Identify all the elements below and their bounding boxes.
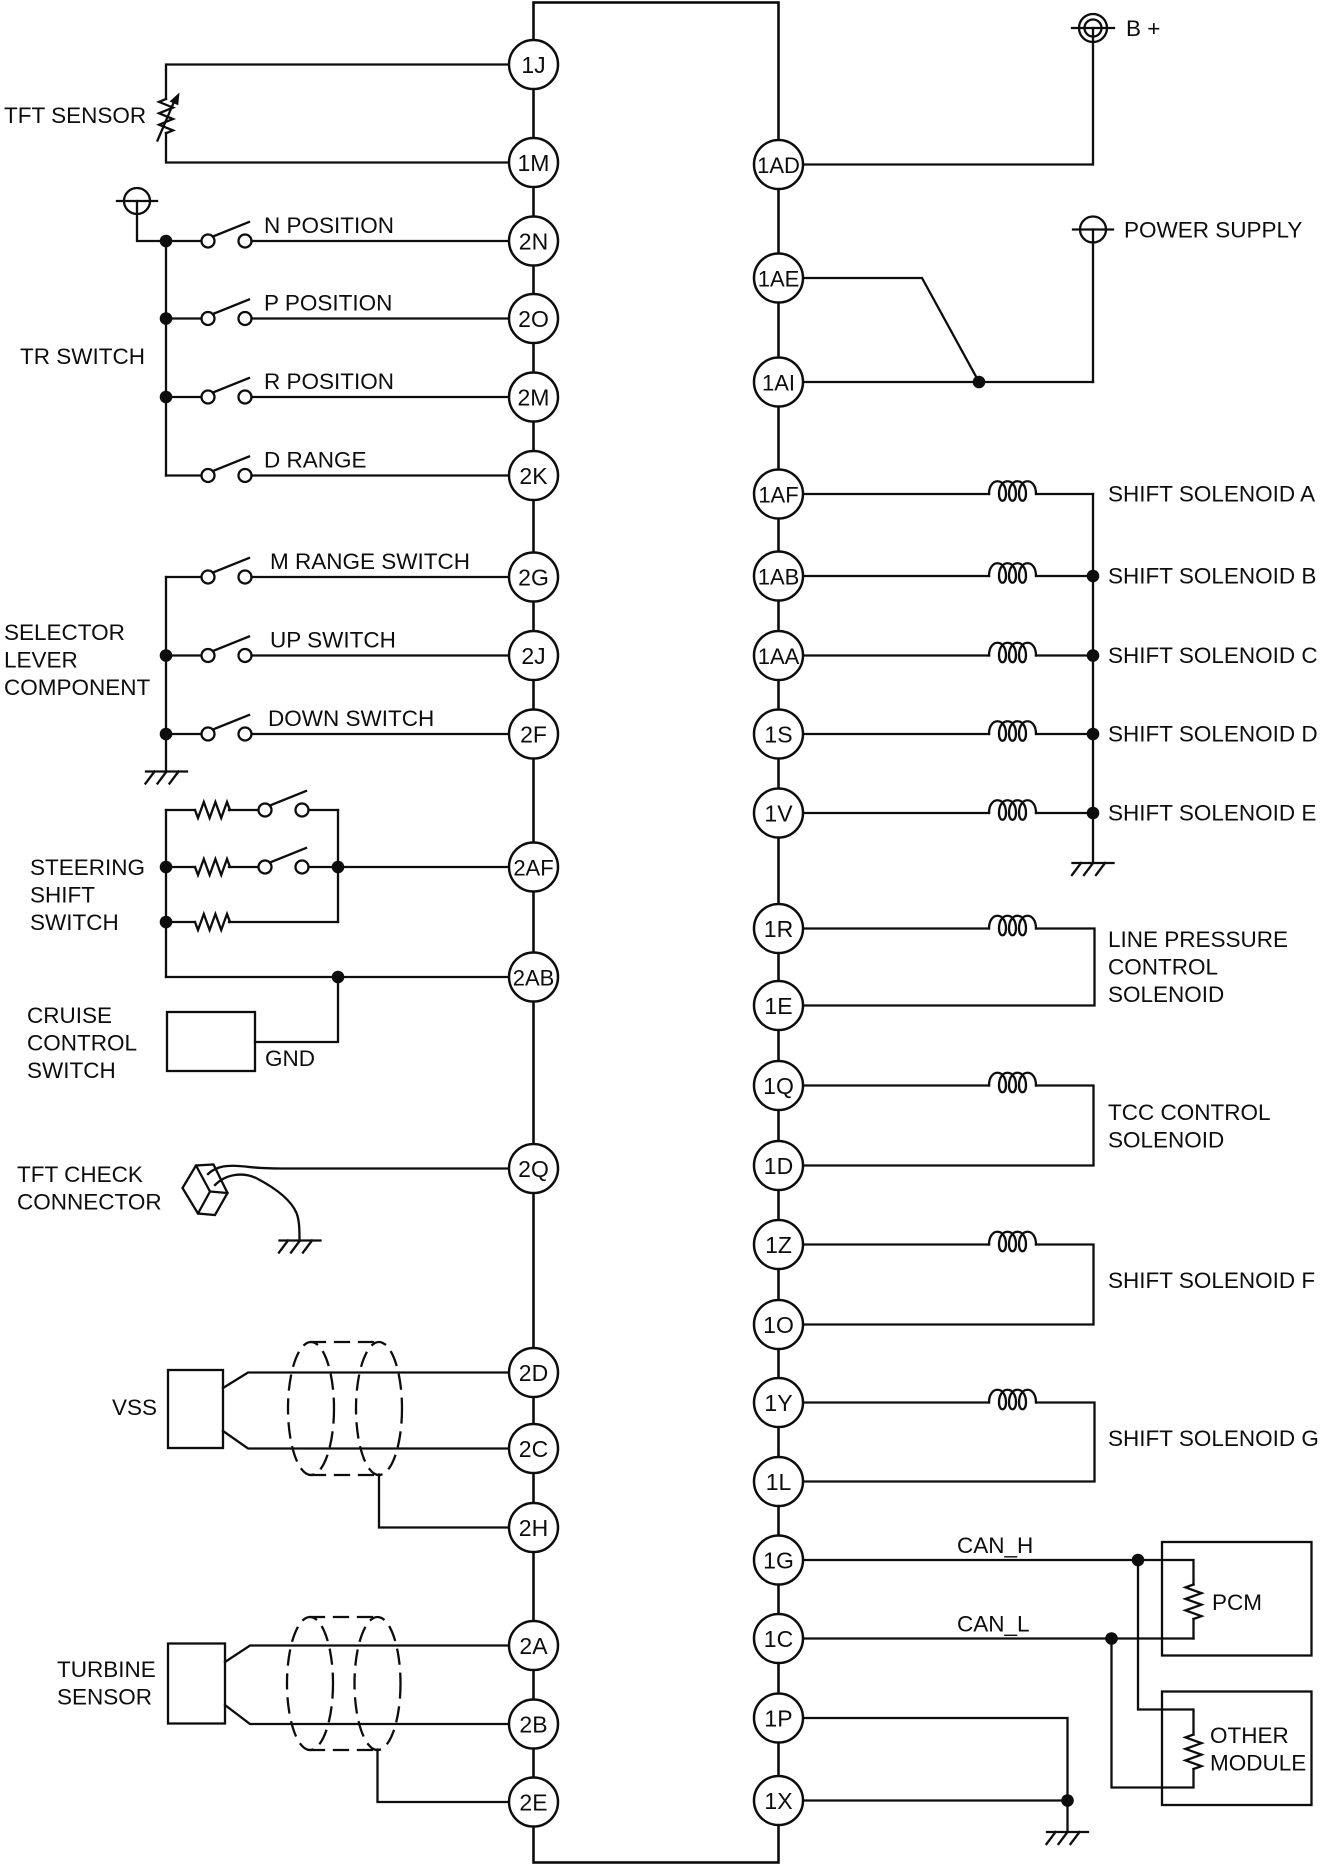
pin 1AE <box>754 254 803 303</box>
wire to R2 <box>166 866 195 868</box>
turbine shield top dashed <box>310 1616 378 1618</box>
solenoid E coil <box>989 800 1036 820</box>
wire VSS shield to pin 2H <box>379 1475 509 1528</box>
power supply symbol <box>1073 217 1113 243</box>
svg-text:MODULE: MODULE <box>1210 1751 1306 1776</box>
wire pin to solenoid E coil <box>803 812 989 814</box>
svg-text:1L: 1L <box>766 1469 792 1495</box>
wire 1C CAN_L <box>803 1637 1194 1639</box>
wire TFT check to ground <box>215 1175 300 1240</box>
turbine shield ellipse right <box>355 1617 401 1750</box>
pin 1V <box>754 789 803 838</box>
junction 1P/1X <box>1061 1794 1074 1807</box>
TCC solenoid coil <box>989 1073 1036 1093</box>
svg-text:2Q: 2Q <box>518 1156 549 1182</box>
VSS box <box>168 1370 223 1448</box>
svg-text:2AB: 2AB <box>513 965 555 990</box>
PCM box <box>1162 1542 1312 1656</box>
pin 1P <box>754 1694 803 1743</box>
svg-text:1Q: 1Q <box>763 1073 794 1099</box>
solenoid D coil <box>989 721 1036 741</box>
TR switch common bus <box>165 241 167 476</box>
wire bus to N switch <box>166 240 202 242</box>
junction steering left R3 <box>160 916 173 929</box>
svg-text:1M: 1M <box>518 150 550 176</box>
svg-text:TFT CHECK: TFT CHECK <box>17 1162 143 1187</box>
SSF coil <box>989 1232 1036 1252</box>
wire R3 to right bus <box>229 921 338 923</box>
other module terminating resistor <box>1186 1735 1202 1770</box>
wire 1AI to power supply <box>803 381 1093 383</box>
wire bus to R switch <box>166 396 202 398</box>
wire pin to solenoid A coil <box>803 493 989 495</box>
wire bus to DOWN switch <box>166 733 202 735</box>
resistor R2 <box>195 859 230 875</box>
svg-text:COMPONENT: COMPONENT <box>4 675 151 700</box>
wire solenoid A to bus <box>1036 493 1093 495</box>
wire pin to solenoid B coil <box>803 575 989 577</box>
pin 1G <box>754 1536 803 1585</box>
svg-text:1V: 1V <box>764 800 793 826</box>
pin 1AD <box>754 140 803 189</box>
junction bus solenoid B <box>1087 570 1100 583</box>
svg-text:VSS: VSS <box>112 1395 157 1420</box>
wire 1R to LPC coil <box>803 927 989 929</box>
svg-text:2G: 2G <box>518 564 549 590</box>
wire DOWN switch to pin <box>252 733 510 735</box>
wire cruise to 2AB junction <box>255 977 338 1042</box>
svg-text:1AE: 1AE <box>758 266 800 291</box>
svg-text:DOWN SWITCH: DOWN SWITCH <box>268 706 434 731</box>
svg-text:TURBINE: TURBINE <box>57 1657 156 1682</box>
wire LPC loop to 1E <box>803 929 1095 1006</box>
svg-text:M RANGE SWITCH: M RANGE SWITCH <box>270 549 470 574</box>
svg-text:SELECTOR: SELECTOR <box>4 620 125 645</box>
pin 2D <box>509 1348 558 1397</box>
switch steering 2 <box>259 848 309 874</box>
ground 1X <box>1047 1832 1089 1844</box>
wire TFT sensor bottom to 1M <box>166 133 509 163</box>
svg-text:SHIFT: SHIFT <box>30 883 95 908</box>
switch UP SWITCH <box>202 637 252 663</box>
wire N switch to pin <box>252 240 510 242</box>
svg-text:SHIFT SOLENOID E: SHIFT SOLENOID E <box>1108 801 1316 826</box>
PCM terminating resistor <box>1186 1585 1202 1620</box>
wire other module resistor to CAN_L branch <box>1112 1639 1194 1788</box>
svg-text:1D: 1D <box>764 1153 793 1179</box>
turbine shield ellipse left <box>287 1617 333 1750</box>
pin 1AI <box>754 358 803 407</box>
svg-text:1X: 1X <box>764 1788 792 1814</box>
wire power supply down to 1AI line <box>1092 230 1094 383</box>
pin 2A <box>509 1621 558 1670</box>
turbine top lead <box>225 1646 509 1663</box>
wire R switch to pin <box>252 396 510 398</box>
svg-text:R POSITION: R POSITION <box>264 369 394 394</box>
VSS bottom lead <box>223 1431 509 1449</box>
pin 2E <box>509 1778 558 1827</box>
pin 2B <box>509 1700 558 1749</box>
svg-text:1S: 1S <box>764 721 792 747</box>
svg-text:P POSITION: P POSITION <box>264 291 392 316</box>
junction 2AB / cruise <box>332 971 345 984</box>
svg-text:SHIFT SOLENOID B: SHIFT SOLENOID B <box>1108 564 1316 589</box>
pin 2N <box>509 217 558 266</box>
pin 1D <box>754 1141 803 1190</box>
pin 2AB <box>509 953 558 1002</box>
wire 1Z to SSF coil <box>803 1243 989 1245</box>
junction bus solenoid D <box>1087 728 1100 741</box>
VSS top lead <box>223 1373 509 1389</box>
SSG coil <box>989 1390 1036 1410</box>
pin 2M <box>509 373 558 422</box>
pin 1AA <box>754 631 803 680</box>
switch D RANGE <box>202 457 252 483</box>
svg-text:1O: 1O <box>763 1312 794 1338</box>
svg-text:SENSOR: SENSOR <box>57 1685 152 1710</box>
pin 1Q <box>754 1061 803 1110</box>
svg-text:2E: 2E <box>519 1789 547 1815</box>
svg-text:2C: 2C <box>519 1436 548 1462</box>
pin 1M <box>509 138 558 187</box>
solenoid ground bus <box>1092 494 1094 863</box>
svg-text:2B: 2B <box>519 1711 547 1737</box>
junction 1AE/1AI <box>973 376 986 389</box>
pin 1S <box>754 710 803 759</box>
junction steering left R2 <box>160 861 173 874</box>
junction bus solenoid C <box>1087 649 1100 662</box>
wire switch1 to right bus <box>309 809 339 811</box>
other module box <box>1162 1692 1312 1806</box>
svg-text:SHIFT SOLENOID F: SHIFT SOLENOID F <box>1108 1268 1315 1293</box>
svg-text:CAN_H: CAN_H <box>957 1533 1033 1558</box>
wire pin to solenoid D coil <box>803 733 989 735</box>
svg-text:B +: B + <box>1126 16 1160 41</box>
svg-text:2H: 2H <box>519 1515 548 1541</box>
wire solenoid C to bus <box>1036 654 1093 656</box>
junction steering right 2AF <box>332 861 345 874</box>
svg-text:SHIFT SOLENOID D: SHIFT SOLENOID D <box>1108 722 1318 747</box>
wire SSG loop to 1L <box>803 1403 1095 1482</box>
wire solenoid B to bus <box>1036 575 1093 577</box>
steering left bus <box>165 810 167 977</box>
svg-text:SWITCH: SWITCH <box>30 910 119 935</box>
svg-text:N POSITION: N POSITION <box>264 213 394 238</box>
wire solenoid E to bus <box>1036 812 1093 814</box>
wire turbine shield to pin 2E <box>378 1750 510 1803</box>
junction CAN_L <box>1105 1632 1118 1645</box>
VSS shield bottom dashed <box>311 1474 379 1476</box>
svg-text:1R: 1R <box>764 916 793 942</box>
wire switch2 to pin 2AF <box>309 866 510 868</box>
solenoid A coil <box>989 481 1036 501</box>
svg-text:2N: 2N <box>519 228 548 254</box>
svg-text:2J: 2J <box>521 643 545 669</box>
svg-text:1G: 1G <box>763 1547 794 1573</box>
svg-text:1C: 1C <box>764 1626 793 1652</box>
junction TR bus / N <box>160 235 173 248</box>
resistor R3 <box>195 914 230 930</box>
ground solenoid bus <box>1072 863 1114 875</box>
TR switch supply symbol <box>117 188 166 241</box>
pin 2C <box>509 1424 558 1473</box>
wire bus to UP switch <box>166 654 202 656</box>
wire 1Q to TCC coil <box>803 1084 989 1086</box>
wire D switch to pin <box>252 474 510 476</box>
VSS shield ellipse right <box>356 1342 402 1475</box>
pin 1X <box>754 1776 803 1825</box>
svg-text:2D: 2D <box>519 1360 548 1386</box>
svg-text:1Z: 1Z <box>765 1232 792 1258</box>
wire R2 to switch2 <box>229 866 259 868</box>
svg-text:2F: 2F <box>520 721 547 747</box>
svg-text:2O: 2O <box>518 306 549 332</box>
svg-text:STEERING: STEERING <box>30 855 145 880</box>
wire UP switch to pin <box>252 654 510 656</box>
wire TFT check to pin 2Q <box>208 1166 509 1174</box>
pin 2J <box>509 631 558 680</box>
wire bus to M switch <box>166 576 202 578</box>
switch N POSITION <box>202 222 252 248</box>
wire 1P down to 1X line <box>803 1718 1068 1801</box>
svg-text:2K: 2K <box>519 463 548 489</box>
pin 1C <box>754 1614 803 1663</box>
wire M switch to pin <box>252 576 510 578</box>
pin 2Q <box>509 1144 558 1193</box>
LPC solenoid coil <box>989 916 1036 936</box>
wire to R3 <box>166 921 195 923</box>
ground selector lever <box>146 772 188 784</box>
svg-text:GND: GND <box>265 1046 315 1071</box>
junction selector bus / UP <box>160 649 173 662</box>
wire junction to ground <box>1066 1801 1068 1833</box>
pin 2K <box>509 451 558 500</box>
TFT check connector cube <box>183 1165 228 1216</box>
wire PCM resistor to CAN_L <box>1192 1619 1194 1639</box>
wire bus to D switch <box>166 474 202 476</box>
pin 1E <box>754 981 803 1030</box>
pin 1Z <box>754 1220 803 1269</box>
svg-text:1J: 1J <box>521 52 545 78</box>
svg-text:OTHER: OTHER <box>1210 1723 1289 1748</box>
svg-text:1AA: 1AA <box>758 644 800 669</box>
wire bus to P switch <box>166 317 202 319</box>
svg-text:TCC CONTROL: TCC CONTROL <box>1108 1100 1271 1125</box>
switch DOWN SWITCH <box>202 715 252 741</box>
svg-text:1AF: 1AF <box>758 482 798 507</box>
pin 2H <box>509 1503 558 1552</box>
VSS shield ellipse left <box>288 1342 334 1475</box>
svg-text:SHIFT SOLENOID A: SHIFT SOLENOID A <box>1108 482 1315 507</box>
svg-text:SHIFT SOLENOID C: SHIFT SOLENOID C <box>1108 643 1318 668</box>
B+ terminal symbol <box>1072 14 1114 42</box>
ground TFT check <box>279 1241 321 1253</box>
wire 1G CAN_H <box>803 1560 1194 1585</box>
svg-text:1AB: 1AB <box>758 564 800 589</box>
TFT sensor thermistor R <box>158 93 180 141</box>
wire 1AE diagonal to 1AI line <box>803 278 979 382</box>
svg-text:1Y: 1Y <box>764 1390 792 1416</box>
TCM connector block outline <box>534 3 779 1863</box>
selector lever common bus <box>165 577 167 771</box>
pin 1AF <box>754 470 803 519</box>
VSS shield top dashed <box>311 1341 379 1343</box>
wire 1X to ground junction <box>803 1799 1068 1801</box>
wire steering common to pin 2AB <box>166 976 509 978</box>
pin 1AB <box>754 552 803 601</box>
pin 1L <box>754 1457 803 1506</box>
svg-text:2M: 2M <box>518 384 550 410</box>
pin 1O <box>754 1300 803 1349</box>
pin 2O <box>509 294 558 343</box>
svg-text:SHIFT SOLENOID G: SHIFT SOLENOID G <box>1108 1426 1319 1451</box>
switch M RANGE SWITCH <box>202 558 252 584</box>
svg-text:LEVER: LEVER <box>4 648 78 673</box>
svg-text:2AF: 2AF <box>513 855 553 880</box>
pin 2G <box>509 553 558 602</box>
svg-text:TFT SENSOR: TFT SENSOR <box>4 103 146 128</box>
svg-text:1E: 1E <box>764 993 792 1019</box>
wire CAN_H branch to other module <box>1138 1560 1194 1735</box>
steering right bus <box>337 810 339 922</box>
svg-text:1AD: 1AD <box>757 153 800 178</box>
wire SSF loop to 1O <box>803 1245 1094 1325</box>
junction selector bus / DOWN <box>160 728 173 741</box>
junction CAN_H <box>1132 1554 1145 1567</box>
svg-text:SOLENOID: SOLENOID <box>1108 982 1224 1007</box>
svg-text:SOLENOID: SOLENOID <box>1108 1128 1224 1153</box>
wire solenoid D to bus <box>1036 733 1093 735</box>
svg-text:CONTROL: CONTROL <box>27 1031 137 1056</box>
turbine sensor box <box>168 1644 225 1724</box>
svg-text:LINE PRESSURE: LINE PRESSURE <box>1108 927 1288 952</box>
svg-text:CAN_L: CAN_L <box>957 1612 1030 1637</box>
wire 1J to TFT sensor top <box>166 65 509 100</box>
svg-text:1P: 1P <box>764 1705 792 1731</box>
turbine shield bottom dashed <box>310 1749 378 1751</box>
pin 2F <box>509 710 558 759</box>
junction TR bus / P <box>160 312 173 325</box>
junction TR bus / R <box>160 391 173 404</box>
solenoid C coil <box>989 643 1036 663</box>
wire P switch to pin <box>252 317 510 319</box>
svg-text:POWER SUPPLY: POWER SUPPLY <box>1124 218 1302 243</box>
pin 1R <box>754 904 803 953</box>
svg-text:PCM: PCM <box>1212 1590 1262 1615</box>
svg-text:2A: 2A <box>519 1633 548 1659</box>
pin 2AF <box>509 843 558 892</box>
wire 1Y to SSG coil <box>803 1401 989 1403</box>
pin 1Y <box>754 1378 803 1427</box>
cruise control switch box <box>167 1012 255 1071</box>
svg-text:1AI: 1AI <box>762 370 795 395</box>
svg-text:CONTROL: CONTROL <box>1108 955 1218 980</box>
wire to R1 <box>166 809 195 811</box>
solenoid B coil <box>989 563 1036 583</box>
wire 1AD to B+ <box>803 42 1093 165</box>
svg-text:TR SWITCH: TR SWITCH <box>20 344 145 369</box>
svg-text:CRUISE: CRUISE <box>27 1003 112 1028</box>
resistor R1 <box>195 802 230 818</box>
svg-text:SWITCH: SWITCH <box>27 1058 116 1083</box>
switch P POSITION <box>202 300 252 326</box>
svg-text:UP SWITCH: UP SWITCH <box>270 628 396 653</box>
junction bus solenoid E <box>1087 807 1100 820</box>
wire R1 to switch1 <box>229 809 259 811</box>
svg-text:D RANGE: D RANGE <box>264 448 367 473</box>
switch steering 1 <box>259 791 309 817</box>
svg-text:CONNECTOR: CONNECTOR <box>17 1190 162 1215</box>
turbine bottom lead <box>225 1705 509 1724</box>
wire pin to solenoid C coil <box>803 654 989 656</box>
switch R POSITION <box>202 378 252 404</box>
pin 1J <box>509 40 558 89</box>
wire TCC loop to 1D <box>803 1086 1094 1166</box>
